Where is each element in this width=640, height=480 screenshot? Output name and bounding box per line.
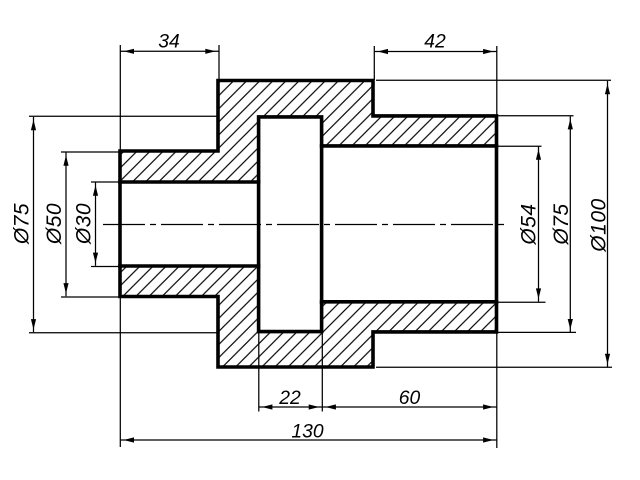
svg-text:34: 34 (158, 32, 179, 53)
svg-text:130: 130 (291, 422, 323, 443)
svg-text:Ø54: Ø54 (518, 203, 541, 245)
svg-text:Ø50: Ø50 (43, 203, 66, 245)
svg-text:Ø75: Ø75 (550, 203, 573, 245)
svg-text:Ø100: Ø100 (588, 198, 611, 252)
svg-text:42: 42 (424, 32, 446, 53)
svg-text:Ø30: Ø30 (73, 203, 96, 245)
svg-text:Ø75: Ø75 (11, 203, 34, 245)
svg-text:22: 22 (278, 388, 301, 409)
svg-text:60: 60 (399, 388, 421, 409)
